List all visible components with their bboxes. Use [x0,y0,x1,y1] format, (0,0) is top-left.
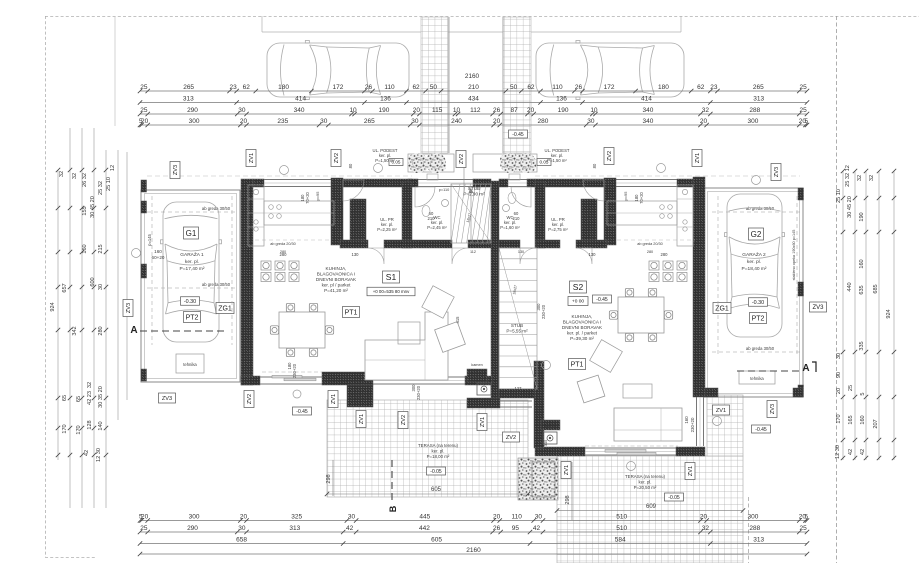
svg-text:80: 80 [592,163,597,168]
svg-text:190: 190 [859,212,865,221]
svg-text:p=95: p=95 [315,191,320,201]
svg-text:70+20: 70+20 [305,191,310,203]
svg-text:300: 300 [189,118,200,125]
svg-text:25: 25 [800,84,808,91]
svg-text:313: 313 [289,525,300,532]
svg-text:42: 42 [860,449,866,455]
svg-text:10: 10 [349,107,357,114]
svg-text:180: 180 [658,84,669,91]
svg-text:280: 280 [661,252,669,257]
svg-text:207: 207 [873,419,879,428]
svg-text:20: 20 [836,388,842,394]
svg-text:ZV2: ZV2 [459,154,465,164]
svg-text:584: 584 [615,537,626,544]
svg-text:172: 172 [333,84,344,91]
svg-text:+0 00: +0 00 [572,299,584,305]
svg-text:32: 32 [72,173,78,179]
svg-text:P=39,30 m²: P=39,30 m² [570,336,594,341]
svg-text:510: 510 [616,514,627,521]
svg-text:20: 20 [240,514,248,521]
svg-text:26 32: 26 32 [82,173,88,187]
svg-text:140: 140 [98,421,104,430]
svg-text:230+20: 230+20 [541,304,546,319]
svg-text:313: 313 [753,537,764,544]
svg-text:50: 50 [510,84,518,91]
svg-text:20: 20 [493,118,501,125]
svg-text:12: 12 [110,165,116,171]
svg-text:-0.05: -0.05 [668,495,680,501]
svg-text:170: 170 [62,424,68,433]
svg-text:A: A [802,363,809,374]
svg-text:313: 313 [753,96,764,103]
svg-text:kamen: kamen [471,363,482,367]
svg-text:215: 215 [98,244,104,253]
svg-text:300: 300 [748,118,759,125]
svg-text:445: 445 [697,336,702,344]
svg-text:160: 160 [859,259,865,268]
svg-text:ZV1: ZV1 [716,408,726,414]
svg-text:230+20: 230+20 [416,385,421,400]
svg-text:170: 170 [76,425,82,434]
svg-text:10: 10 [453,107,461,114]
svg-text:P=20,50 m²: P=20,50 m² [634,485,657,490]
svg-text:PT1: PT1 [571,362,584,369]
svg-text:-0.30: -0.30 [184,299,196,305]
svg-text:685: 685 [873,284,879,293]
svg-text:160: 160 [684,416,689,424]
svg-text:KUHINJA,: KUHINJA, [326,266,347,271]
svg-text:62: 62 [243,84,251,91]
svg-text:PT2: PT2 [752,316,765,323]
svg-text:ZG1: ZG1 [715,306,729,313]
svg-text:25 32 12: 25 32 12 [845,165,851,187]
svg-text:657: 657 [62,283,68,292]
svg-text:-0.45: -0.45 [596,297,608,303]
svg-text:32: 32 [869,175,875,181]
svg-text:32: 32 [857,175,863,181]
svg-text:42 23: 42 23 [87,391,93,405]
svg-text:605: 605 [431,537,442,544]
svg-text:KUHINJA,: KUHINJA, [572,314,593,319]
svg-text:25: 25 [800,525,808,532]
svg-text:P=18,40 m²: P=18,40 m² [742,266,767,272]
svg-text:TERASA (na terenu): TERASA (na terenu) [418,443,459,448]
svg-text:30: 30 [411,118,419,125]
svg-text:414: 414 [295,96,306,103]
svg-text:2160: 2160 [466,547,481,554]
svg-text:300: 300 [189,514,200,521]
svg-text:25 10: 25 10 [836,189,842,203]
svg-text:130: 130 [518,250,524,254]
svg-text:42: 42 [84,450,90,456]
svg-text:95: 95 [512,525,520,532]
svg-text:340: 340 [294,107,305,114]
svg-text:20: 20 [493,514,501,521]
svg-text:136: 136 [556,96,567,103]
svg-text:110: 110 [384,84,395,91]
svg-text:ker. pl.: ker. pl. [185,259,199,265]
svg-text:-0.05: -0.05 [430,469,442,475]
svg-text:25 32: 25 32 [98,181,104,195]
svg-text:ab greda 30/50: ab greda 30/50 [746,346,775,351]
svg-text:288: 288 [749,525,760,532]
svg-text:PT2: PT2 [186,315,199,322]
svg-text:335: 335 [859,341,865,350]
svg-text:20: 20 [413,107,421,114]
svg-text:30 45 20: 30 45 20 [90,196,96,218]
svg-text:5: 5 [804,118,808,125]
svg-text:STUB: STUB [468,186,480,191]
svg-text:30: 30 [535,514,543,521]
svg-text:20: 20 [141,118,149,125]
svg-text:265: 265 [183,84,194,91]
svg-text:62: 62 [697,84,705,91]
svg-text:445: 445 [419,514,430,521]
svg-text:G1: G1 [186,229,197,238]
svg-text:115: 115 [432,107,443,114]
svg-text:300: 300 [748,514,759,521]
svg-text:12 30: 12 30 [96,448,102,462]
svg-text:155: 155 [82,206,88,215]
svg-text:ZV1: ZV1 [359,414,365,424]
svg-text:25: 25 [140,107,148,114]
svg-text:20: 20 [700,514,708,521]
svg-text:65: 65 [62,395,68,401]
svg-text:A: A [130,325,137,336]
svg-text:160: 160 [860,415,866,424]
svg-text:65: 65 [76,396,82,402]
svg-text:S2: S2 [573,282,584,292]
svg-text:ker. pl / parket: ker. pl / parket [322,283,352,288]
svg-text:30 35 20: 30 35 20 [98,386,104,408]
svg-text:605: 605 [431,487,442,493]
svg-text:210: 210 [428,216,436,221]
svg-text:340: 340 [643,118,654,125]
svg-text:42: 42 [848,449,854,455]
svg-text:110: 110 [552,84,563,91]
svg-text:235: 235 [277,118,288,125]
svg-text:600: 600 [90,277,96,286]
svg-text:ab greda 20/30: ab greda 20/30 [637,242,663,246]
svg-text:305: 305 [543,439,548,446]
svg-text:510: 510 [616,525,627,532]
svg-text:42: 42 [346,525,354,532]
svg-text:210: 210 [468,84,479,91]
svg-text:BLAGOVAONICA I: BLAGOVAONICA I [563,320,601,325]
svg-text:ZV3: ZV3 [162,396,172,402]
svg-text:210: 210 [513,216,521,221]
svg-text:32: 32 [59,171,65,177]
svg-text:127: 127 [515,386,523,391]
svg-text:-0.45: -0.45 [512,132,524,138]
svg-text:ZV2: ZV2 [401,415,407,425]
svg-text:288: 288 [749,107,760,114]
svg-text:tehnika: tehnika [750,376,764,381]
svg-text:30 45 20: 30 45 20 [847,196,853,218]
svg-text:30: 30 [320,118,328,125]
svg-text:P=1,50 m²: P=1,50 m² [375,158,395,163]
svg-text:P=1,60 m²: P=1,60 m² [500,225,520,230]
svg-text:DNEVNI BORAVAK: DNEVNI BORAVAK [562,325,603,330]
svg-text:70+20: 70+20 [639,191,644,203]
svg-text:290: 290 [187,525,198,532]
svg-text:TERASA (na terenu): TERASA (na terenu) [625,474,666,479]
svg-text:32: 32 [87,382,93,388]
svg-text:190: 190 [558,107,569,114]
svg-text:924: 924 [50,302,56,311]
svg-text:DNEVNI BORAVAK: DNEVNI BORAVAK [316,277,357,282]
svg-text:20: 20 [141,514,149,521]
svg-text:80: 80 [348,163,353,168]
svg-text:ZV2: ZV2 [506,435,516,441]
svg-text:ZV3: ZV3 [774,167,780,177]
svg-text:130: 130 [352,252,360,257]
svg-text:kamen: kamen [545,425,556,429]
svg-text:ZV1: ZV1 [331,394,337,404]
svg-text:p=145: p=145 [147,233,152,245]
svg-text:42: 42 [533,525,541,532]
svg-text:60+20: 60+20 [152,255,165,260]
svg-text:ZV1: ZV1 [688,466,694,476]
svg-text:87: 87 [510,107,518,114]
svg-text:10: 10 [590,107,598,114]
svg-text:924: 924 [886,309,892,318]
svg-text:PT1: PT1 [345,310,358,317]
svg-text:20: 20 [240,118,248,125]
svg-text:ZV3: ZV3 [770,404,776,414]
svg-text:30: 30 [836,353,842,359]
svg-text:ker. pl. / parket: ker. pl. / parket [567,331,598,336]
svg-text:-0.45: -0.45 [755,427,767,433]
svg-text:440: 440 [847,282,853,291]
svg-text:ZV1: ZV1 [480,417,486,427]
svg-text:635: 635 [859,285,865,294]
svg-text:30: 30 [238,107,246,114]
svg-text:62: 62 [412,84,420,91]
svg-text:442: 442 [419,525,430,532]
svg-text:ZV3: ZV3 [173,165,179,175]
svg-text:30: 30 [98,284,104,290]
svg-text:128: 128 [87,420,93,429]
svg-text:160: 160 [82,244,88,253]
svg-text:ZV3: ZV3 [126,303,132,313]
svg-text:415: 415 [455,316,460,324]
svg-text:32: 32 [702,107,710,114]
svg-text:25: 25 [140,525,148,532]
svg-text:ZV1: ZV1 [249,153,255,163]
svg-text:P=5,55 m²: P=5,55 m² [506,329,528,334]
svg-text:32: 32 [702,525,710,532]
svg-text:110: 110 [512,514,523,521]
svg-text:190: 190 [379,107,390,114]
svg-text:ZV2: ZV2 [607,151,613,161]
svg-text:298: 298 [565,495,571,504]
svg-text:ZV3: ZV3 [812,305,824,311]
svg-text:23: 23 [229,84,237,91]
svg-text:ker. pl.: ker. pl. [747,259,761,265]
svg-text:658: 658 [236,537,247,544]
svg-text:25: 25 [140,84,148,91]
svg-text:609: 609 [646,504,657,510]
svg-text:136: 136 [380,96,391,103]
svg-text:S1: S1 [386,272,397,282]
svg-text:5: 5 [860,392,866,395]
svg-text:tehnika: tehnika [183,362,197,367]
svg-text:170: 170 [836,414,842,423]
svg-text:180: 180 [278,84,289,91]
svg-text:160: 160 [154,249,162,254]
svg-text:342: 342 [72,326,78,335]
svg-text:20: 20 [700,118,708,125]
svg-text:B: B [388,505,398,512]
svg-text:90: 90 [836,372,842,378]
svg-text:2160: 2160 [465,73,480,80]
svg-text:-0.45: -0.45 [296,409,308,415]
svg-text:240: 240 [451,118,462,125]
svg-text:112: 112 [470,107,481,114]
svg-text:ker. pl.: ker. pl. [639,479,652,484]
svg-text:12 30: 12 30 [835,445,841,459]
svg-text:26: 26 [365,84,373,91]
svg-text:313: 313 [183,96,194,103]
svg-text:172: 172 [604,84,615,91]
svg-text:P=1,50 m²: P=1,50 m² [547,158,567,163]
svg-text:50: 50 [430,84,438,91]
svg-text:ZV1: ZV1 [695,153,701,163]
svg-text:P=17,40 m²: P=17,40 m² [180,266,205,272]
svg-text:325: 325 [291,514,302,521]
svg-text:130: 130 [589,252,597,257]
svg-text:340: 340 [643,107,654,114]
svg-text:p=95: p=95 [623,191,628,201]
svg-text:290: 290 [187,107,198,114]
svg-text:ZG1: ZG1 [218,306,232,313]
svg-text:20: 20 [527,107,535,114]
svg-text:P=2,45 m²: P=2,45 m² [427,225,447,230]
svg-text:ZV2: ZV2 [247,394,253,404]
svg-text:5: 5 [804,514,808,521]
svg-text:280: 280 [98,326,104,335]
svg-text:BLAGOVAONICA I: BLAGOVAONICA I [317,272,355,277]
svg-text:-0.30: -0.30 [752,300,764,306]
svg-text:ZV1: ZV1 [564,465,570,475]
svg-text:P=2,75 m²: P=2,75 m² [548,227,568,232]
svg-text:25: 25 [800,107,808,114]
svg-text:23: 23 [710,84,718,91]
svg-text:25: 25 [848,385,854,391]
svg-text:26: 26 [575,84,583,91]
svg-text:STUB: STUB [511,323,523,328]
svg-text:62: 62 [527,84,535,91]
svg-text:30: 30 [238,525,246,532]
svg-text:p=110: p=110 [439,188,449,192]
svg-text:230+20: 230+20 [690,417,695,432]
svg-text:ker. pl.: ker. pl. [432,448,445,453]
svg-text:G2: G2 [751,230,762,239]
svg-text:P=41,20 m²: P=41,20 m² [324,288,348,293]
svg-text:P=18,00 m²: P=18,00 m² [427,454,450,459]
svg-text:434: 434 [468,96,479,103]
svg-text:ab greda 30/50: ab greda 30/50 [746,206,775,211]
svg-text:280: 280 [647,250,653,254]
svg-text:P=2,90 m²: P=2,90 m² [463,192,485,197]
svg-text:ab greda 30/50: ab greda 30/50 [202,282,231,287]
svg-text:280: 280 [538,118,549,125]
svg-text:265: 265 [364,118,375,125]
svg-text:414: 414 [641,96,652,103]
svg-text:stakleno opeka 190x60 p=145: stakleno opeka 190x60 p=145 [792,230,796,281]
svg-text:30: 30 [587,118,595,125]
svg-text:26: 26 [493,525,501,532]
svg-text:ab greda 20/30: ab greda 20/30 [270,242,296,246]
svg-text:298: 298 [326,474,332,483]
svg-text:26: 26 [493,107,501,114]
svg-text:25 10: 25 10 [106,177,112,191]
svg-text:+0 00=535 80 mnv: +0 00=535 80 mnv [373,289,410,294]
svg-text:112: 112 [470,250,476,254]
svg-text:30: 30 [348,514,356,521]
svg-text:230+20: 230+20 [292,363,297,378]
svg-text:165: 165 [848,415,854,424]
svg-text:265: 265 [753,84,764,91]
svg-text:280: 280 [280,252,288,257]
svg-text:ZV2: ZV2 [334,153,340,163]
svg-text:P=2,25 m²: P=2,25 m² [377,227,397,232]
